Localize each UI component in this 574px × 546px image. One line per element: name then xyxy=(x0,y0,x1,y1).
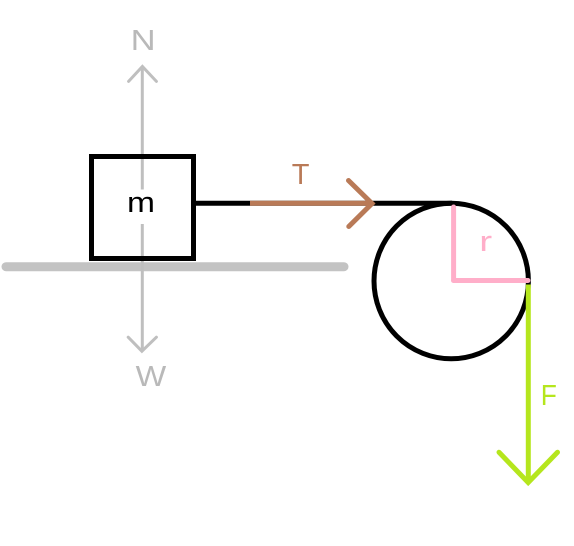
tension arrowhead xyxy=(349,181,373,227)
svg-text:T: T xyxy=(292,159,310,191)
svg-text:m: m xyxy=(127,187,155,219)
rope (block to pulley) xyxy=(196,201,452,206)
radius vertical line xyxy=(451,207,456,281)
block m xyxy=(92,157,194,259)
weight force arrow W (shaft) xyxy=(141,224,144,349)
force arrow F (shaft) xyxy=(526,285,531,481)
svg-text:W: W xyxy=(136,361,167,393)
normal force arrowhead xyxy=(129,67,157,82)
force arrowhead xyxy=(499,452,558,482)
radius horizontal line xyxy=(454,278,528,283)
normal force arrow N (shaft) xyxy=(141,67,144,190)
pulley circle xyxy=(374,203,528,359)
svg-text:r: r xyxy=(479,226,492,258)
weight arrowhead xyxy=(128,337,156,351)
svg-text:N: N xyxy=(131,25,156,57)
ground surface xyxy=(6,262,344,271)
tension arrow T (shaft) xyxy=(250,201,369,206)
svg-text:F: F xyxy=(541,380,557,412)
